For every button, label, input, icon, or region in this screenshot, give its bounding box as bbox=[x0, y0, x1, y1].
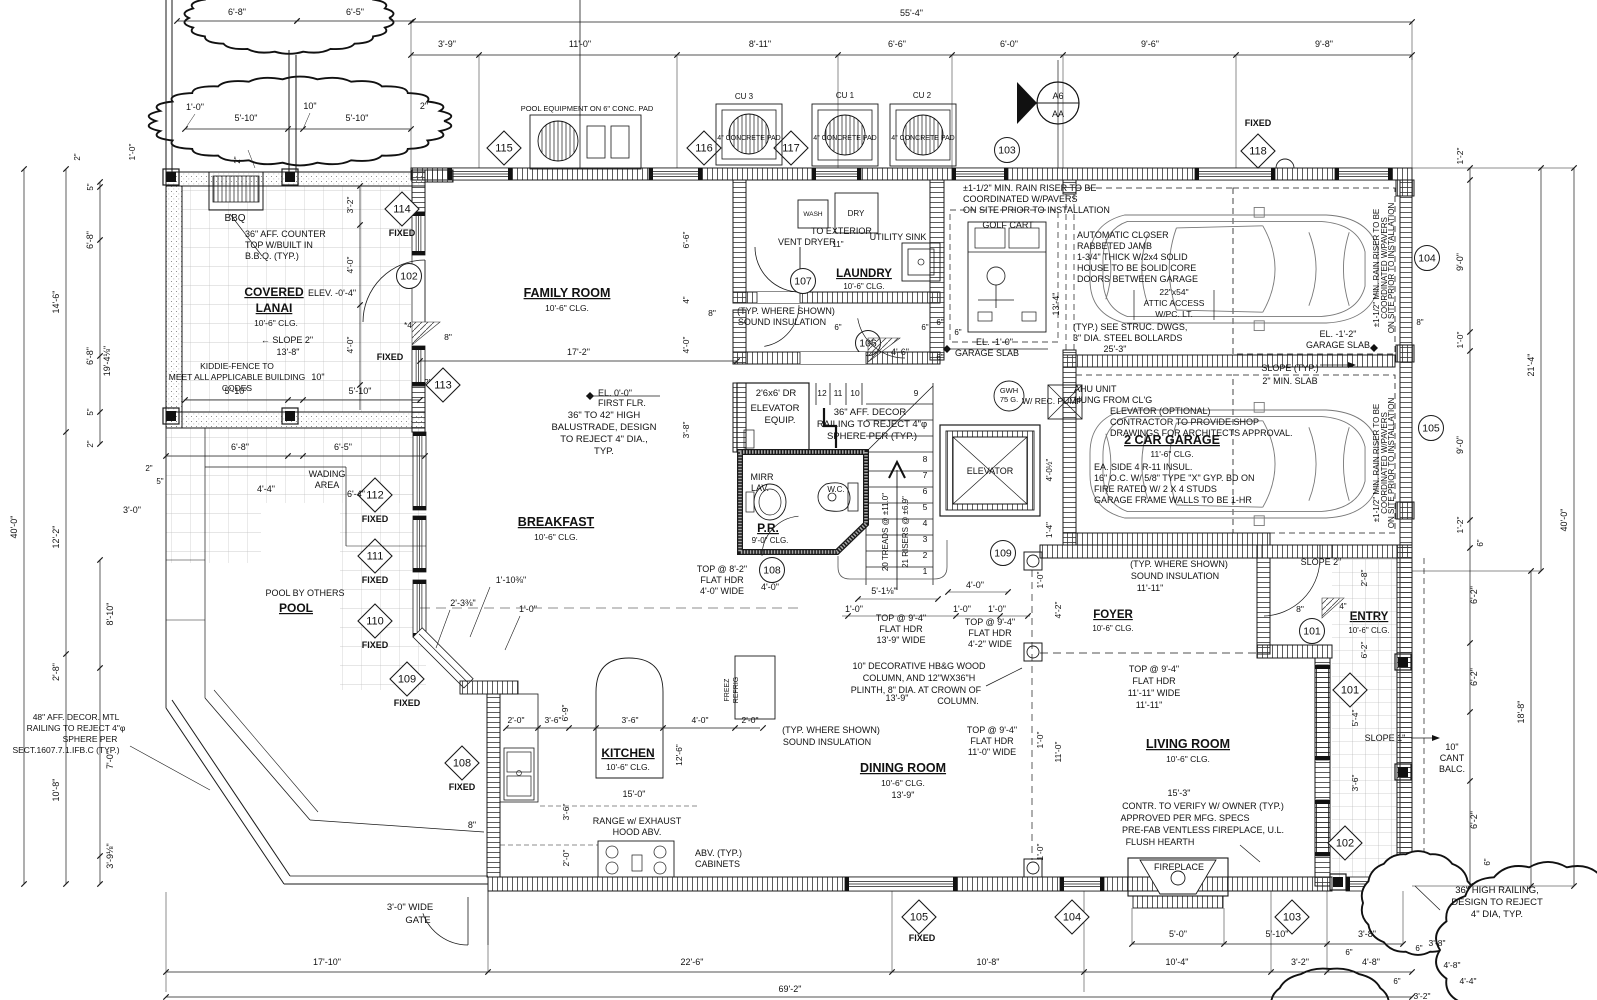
svg-text:SOUND INSULATION: SOUND INSULATION bbox=[738, 317, 826, 327]
svg-text:ABV. (TYP.): ABV. (TYP.) bbox=[695, 848, 742, 858]
left dim 14-6 12-2 bbox=[65, 169, 67, 884]
stairs upper flight short treads bbox=[815, 383, 817, 405]
svg-text:FOYER: FOYER bbox=[1093, 609, 1133, 621]
svg-text:6'-2": 6'-2" bbox=[1469, 668, 1479, 686]
diamond 111 bbox=[358, 539, 392, 573]
svg-text:FIXED: FIXED bbox=[389, 228, 416, 238]
right dim line inner bbox=[1469, 168, 1471, 886]
garage right wall bbox=[1400, 180, 1412, 891]
svg-text:SOUND INSULATION: SOUND INSULATION bbox=[1131, 571, 1219, 581]
svg-text:6'-9": 6'-9" bbox=[560, 705, 570, 722]
entry porch grid bbox=[1332, 558, 1397, 877]
svg-text:3: 3 bbox=[923, 534, 928, 544]
svg-text:10": 10" bbox=[303, 101, 316, 111]
svg-text:CONTR. TO VERIFY W/ OWNER (TYP: CONTR. TO VERIFY W/ OWNER (TYP.) bbox=[1122, 801, 1284, 811]
svg-text:← SLOPE 2": ← SLOPE 2" bbox=[261, 335, 313, 345]
svg-text:6'-5": 6'-5" bbox=[346, 7, 364, 17]
elevator equip room bbox=[737, 383, 809, 452]
svg-text:4'-2" WIDE: 4'-2" WIDE bbox=[968, 639, 1012, 649]
svg-text:PLINTH, 8" DIA. AT CROWN OF: PLINTH, 8" DIA. AT CROWN OF bbox=[851, 685, 982, 695]
svg-text:6: 6 bbox=[923, 486, 928, 496]
lanai post bottom-mid bbox=[282, 408, 298, 424]
svg-text:RANGE w/ EXHAUST: RANGE w/ EXHAUST bbox=[593, 816, 682, 826]
svg-text:109: 109 bbox=[994, 548, 1012, 560]
family room west wall with corner bbox=[412, 170, 425, 212]
circle 108 bbox=[760, 558, 785, 583]
svg-text:5'-10": 5'-10" bbox=[349, 386, 372, 396]
svg-text:FAMILY ROOM: FAMILY ROOM bbox=[524, 286, 611, 300]
svg-text:6": 6" bbox=[1345, 948, 1352, 957]
kitchen west wall bbox=[487, 694, 500, 877]
svg-text:FREEZ: FREEZ bbox=[724, 678, 731, 702]
svg-text:113: 113 bbox=[434, 380, 452, 392]
svg-text:BALC.: BALC. bbox=[1439, 764, 1465, 774]
golf cart dashed bay bbox=[950, 210, 1058, 342]
svg-text:4'-0": 4'-0" bbox=[692, 715, 709, 725]
svg-text:111: 111 bbox=[367, 551, 384, 563]
svg-text:10'-6" CLG.: 10'-6" CLG. bbox=[545, 303, 589, 313]
svg-text:6'-5": 6'-5" bbox=[334, 442, 352, 452]
svg-text:FLAT HDR: FLAT HDR bbox=[879, 624, 923, 634]
svg-text:4'-0": 4'-0" bbox=[345, 337, 355, 354]
svg-text:EL. 0'-0": EL. 0'-0" bbox=[598, 388, 632, 398]
svg-text:10'-6" CLG.: 10'-6" CLG. bbox=[1166, 754, 1210, 764]
gate arc bbox=[423, 913, 468, 945]
west wall window 1 bbox=[412, 212, 425, 255]
svg-text:20 TREADS @ ±11.0": 20 TREADS @ ±11.0" bbox=[881, 493, 890, 571]
right wall post blocks bbox=[1396, 180, 1414, 196]
svg-text:2": 2" bbox=[73, 153, 82, 160]
utility sink bbox=[902, 243, 940, 281]
svg-text:FLUSH HEARTH: FLUSH HEARTH bbox=[1126, 837, 1195, 847]
svg-text:5'-1⅛": 5'-1⅛" bbox=[871, 586, 896, 596]
cabinet dashed lines bbox=[540, 805, 700, 807]
svg-text:8'-11": 8'-11" bbox=[749, 39, 771, 49]
svg-text:1'-4": 1'-4" bbox=[1045, 522, 1054, 538]
west wall bottom segment bbox=[412, 386, 425, 432]
svg-text:4" DIA, TYP.: 4" DIA, TYP. bbox=[1471, 909, 1523, 920]
svg-text:2": 2" bbox=[233, 156, 242, 163]
svg-text:ON SITE PRIOR TO INSTALLATION: ON SITE PRIOR TO INSTALLATION bbox=[1387, 398, 1396, 529]
closet wall vertical bbox=[1257, 558, 1270, 654]
svg-text:4: 4 bbox=[923, 518, 928, 528]
svg-text:TOP W/BUILT IN: TOP W/BUILT IN bbox=[245, 240, 313, 250]
svg-text:FLAT HDR: FLAT HDR bbox=[968, 628, 1012, 638]
laundry left wall bbox=[733, 180, 746, 303]
svg-text:P.R.: P.R. bbox=[757, 521, 779, 535]
svg-text:36" AFF. DECOR: 36" AFF. DECOR bbox=[834, 407, 907, 418]
svg-text:1'-0": 1'-0" bbox=[953, 604, 971, 614]
svg-text:1'-0": 1'-0" bbox=[1035, 844, 1045, 861]
svg-text:40'-0": 40'-0" bbox=[9, 516, 19, 539]
svg-text:1'-0": 1'-0" bbox=[186, 102, 204, 112]
svg-text:3'-8": 3'-8" bbox=[681, 422, 691, 439]
pool bottom deck lines bbox=[284, 883, 488, 885]
svg-text:3'-6": 3'-6" bbox=[622, 715, 639, 725]
diamond 113 bbox=[426, 368, 460, 402]
svg-text:4'-4": 4'-4" bbox=[257, 484, 275, 494]
svg-text:GOLF CART: GOLF CART bbox=[982, 220, 1034, 230]
svg-text:3'-2": 3'-2" bbox=[1414, 991, 1431, 1000]
svg-text:6": 6" bbox=[834, 323, 841, 332]
svg-text:ELEVATOR (OPTIONAL): ELEVATOR (OPTIONAL) bbox=[1110, 406, 1211, 416]
svg-text:105: 105 bbox=[910, 912, 928, 924]
column markers bbox=[1024, 552, 1042, 570]
svg-text:6'-6": 6'-6" bbox=[888, 39, 906, 49]
bottom dim row small (5-0, 5-10, 3-8) bbox=[1132, 943, 1403, 945]
svg-text:B.B.Q. (TYP.): B.B.Q. (TYP.) bbox=[245, 251, 299, 261]
svg-text:ON SITE PRIOR TO INSTALLATION: ON SITE PRIOR TO INSTALLATION bbox=[1387, 203, 1396, 334]
laundry bottom wall bbox=[733, 292, 940, 303]
svg-text:75 G.: 75 G. bbox=[1000, 395, 1018, 404]
cu2 pad bbox=[890, 104, 956, 166]
entry south window bbox=[1346, 877, 1396, 891]
svg-text:1'-0": 1'-0" bbox=[519, 604, 537, 614]
svg-text:105: 105 bbox=[1422, 423, 1440, 435]
svg-text:115: 115 bbox=[495, 143, 513, 155]
svg-text:4": 4" bbox=[1339, 602, 1346, 611]
tree dim row 2 bbox=[185, 128, 411, 130]
svg-text:10'-6" CLG.: 10'-6" CLG. bbox=[843, 282, 884, 291]
svg-text:CABINETS: CABINETS bbox=[695, 859, 740, 869]
svg-text:2'-8": 2'-8" bbox=[1359, 570, 1369, 587]
svg-text:FIXED: FIXED bbox=[394, 698, 421, 708]
svg-text:10'-6" CLG.: 10'-6" CLG. bbox=[254, 318, 298, 328]
svg-text:6'-2": 6'-2" bbox=[1469, 586, 1479, 604]
svg-text:ELEVATOR: ELEVATOR bbox=[750, 403, 799, 414]
tree cloud bottom right 1 bbox=[1362, 851, 1474, 955]
svg-text:RAILING TO REJECT 4"φ: RAILING TO REJECT 4"φ bbox=[27, 723, 126, 733]
svg-text:8": 8" bbox=[708, 308, 716, 318]
garage mid wall bbox=[1063, 355, 1395, 367]
door hatch wedge *4 bbox=[412, 322, 440, 345]
svg-text:RABBETED JAMB: RABBETED JAMB bbox=[1077, 241, 1152, 251]
garage left wall lower bbox=[1063, 350, 1076, 545]
svg-text:1'-0": 1'-0" bbox=[988, 604, 1006, 614]
dims above kitchen bay bbox=[440, 644, 540, 646]
svg-text:FIXED: FIXED bbox=[449, 782, 476, 792]
stair diagonal rail bbox=[866, 386, 933, 452]
svg-text:VENT DRYER: VENT DRYER bbox=[778, 237, 836, 247]
svg-text:2": 2" bbox=[145, 464, 152, 473]
diamond 110 bbox=[358, 604, 392, 638]
svg-text:6'-6": 6'-6" bbox=[681, 232, 691, 249]
bay sill horizontal bbox=[460, 681, 518, 694]
svg-text:FIRE RATED W/ 2 X 4 STUDS: FIRE RATED W/ 2 X 4 STUDS bbox=[1094, 484, 1217, 494]
svg-text:POOL BY OTHERS: POOL BY OTHERS bbox=[265, 588, 344, 598]
entry posts bbox=[1395, 654, 1411, 670]
svg-text:11'-11" WIDE: 11'-11" WIDE bbox=[1128, 688, 1181, 698]
svg-text:114: 114 bbox=[393, 204, 411, 216]
svg-text:8": 8" bbox=[1296, 604, 1304, 614]
door hatch by garage bbox=[868, 338, 900, 362]
svg-text:10'-8": 10'-8" bbox=[977, 957, 1000, 967]
right dim 18-8 bbox=[1530, 571, 1532, 886]
svg-text:LIVING ROOM: LIVING ROOM bbox=[1146, 737, 1230, 751]
svg-text:17'-2": 17'-2" bbox=[567, 347, 590, 357]
top wall window family room west bbox=[448, 168, 512, 180]
svg-text:KITCHEN: KITCHEN bbox=[601, 746, 654, 760]
svg-text:11'-0" WIDE: 11'-0" WIDE bbox=[968, 747, 1016, 757]
svg-text:4'-0": 4'-0" bbox=[681, 337, 691, 354]
svg-text:4" CONCRETE PAD: 4" CONCRETE PAD bbox=[717, 135, 780, 142]
garage left wall upper stub bbox=[1063, 180, 1076, 194]
svg-text:19'-4⅛": 19'-4⅛" bbox=[102, 346, 112, 376]
svg-text:8": 8" bbox=[1416, 318, 1423, 327]
svg-text:MEET ALL APPLICABLE BUILDING: MEET ALL APPLICABLE BUILDING bbox=[169, 372, 306, 382]
svg-text:6'-2": 6'-2" bbox=[1359, 642, 1369, 659]
svg-text:POOL EQUIPMENT ON 6" CONC. PAD: POOL EQUIPMENT ON 6" CONC. PAD bbox=[521, 104, 654, 113]
svg-text:55'-4": 55'-4" bbox=[900, 8, 923, 18]
svg-text:RAILING TO REJECT 4"φ: RAILING TO REJECT 4"φ bbox=[817, 419, 927, 430]
diamond 116 bbox=[687, 131, 721, 165]
gwh circle bbox=[994, 381, 1024, 411]
pool deck grid below lanai bbox=[166, 428, 426, 503]
top dim extension lines bbox=[410, 55, 412, 168]
svg-text:8": 8" bbox=[468, 820, 476, 830]
tree cloud top-left upper bbox=[185, 0, 394, 54]
svg-text:8": 8" bbox=[444, 332, 452, 342]
diamond 118 bbox=[1241, 134, 1275, 168]
svg-text:4'-4": 4'-4" bbox=[1460, 976, 1477, 986]
svg-text:103: 103 bbox=[1283, 912, 1301, 924]
svg-text:COVERED: COVERED bbox=[244, 285, 304, 299]
svg-text:8: 8 bbox=[923, 454, 928, 464]
svg-text:2": 2" bbox=[86, 440, 95, 447]
svg-text:3'-6": 3'-6" bbox=[545, 715, 562, 725]
svg-text:40'-0": 40'-0" bbox=[1559, 509, 1569, 532]
svg-text:3'-0": 3'-0" bbox=[123, 505, 141, 515]
svg-text:2'-0": 2'-0" bbox=[561, 850, 571, 867]
svg-text:AHU UNIT: AHU UNIT bbox=[1074, 384, 1117, 394]
svg-text:ON SITE PRIOR TO INSTALLATION: ON SITE PRIOR TO INSTALLATION bbox=[963, 205, 1110, 215]
svg-text:108: 108 bbox=[763, 565, 781, 577]
svg-text:1'-10⅜": 1'-10⅜" bbox=[496, 575, 526, 585]
svg-text:6": 6" bbox=[936, 353, 943, 362]
svg-text:13'-9": 13'-9" bbox=[886, 693, 909, 703]
circle 109 bbox=[991, 541, 1016, 566]
svg-text:AREA: AREA bbox=[315, 480, 340, 490]
range bbox=[598, 841, 674, 877]
svg-text:SPHERE PER (TYP.): SPHERE PER (TYP.) bbox=[827, 431, 917, 442]
svg-text:ELEVATOR: ELEVATOR bbox=[967, 466, 1014, 476]
svg-text:5: 5 bbox=[923, 502, 928, 512]
svg-text:17'-10": 17'-10" bbox=[313, 957, 341, 967]
svg-text:LAUNDRY: LAUNDRY bbox=[836, 268, 892, 280]
svg-text:GATE: GATE bbox=[405, 915, 430, 926]
svg-text:FIXED: FIXED bbox=[362, 640, 389, 650]
svg-text:22'-6": 22'-6" bbox=[681, 957, 704, 967]
svg-text:2'-3⅜": 2'-3⅜" bbox=[450, 598, 475, 608]
svg-text:TO EXTERIOR: TO EXTERIOR bbox=[811, 226, 872, 236]
kitchen island arch bbox=[596, 658, 663, 778]
svg-text:5": 5" bbox=[86, 183, 95, 190]
bottom dim row 1 bbox=[166, 971, 1412, 973]
svg-text:13'-9": 13'-9" bbox=[892, 790, 915, 800]
top wall window laundry bbox=[812, 168, 861, 180]
svg-text:3'-2": 3'-2" bbox=[1291, 957, 1309, 967]
svg-text:(TYP. WHERE SHOWN): (TYP. WHERE SHOWN) bbox=[782, 725, 880, 735]
svg-text:EL. -1'-0": EL. -1'-0" bbox=[976, 337, 1013, 347]
svg-text:EL. -1'-2": EL. -1'-2" bbox=[1320, 329, 1357, 339]
svg-text:4'-2": 4'-2" bbox=[1053, 602, 1063, 619]
foyer top wall bbox=[1040, 545, 1257, 558]
svg-text:5": 5" bbox=[86, 408, 95, 415]
svg-text:1'-0": 1'-0" bbox=[1455, 332, 1465, 349]
svg-text:10": 10" bbox=[311, 372, 324, 382]
svg-text:4'-0" WIDE: 4'-0" WIDE bbox=[700, 586, 744, 596]
right dim 40-0 bbox=[1573, 168, 1575, 886]
svg-text:2" MIN. SLAB: 2" MIN. SLAB bbox=[1262, 376, 1317, 386]
svg-text:12: 12 bbox=[817, 388, 827, 398]
svg-text:11": 11" bbox=[832, 240, 843, 249]
tree dim row top-left bbox=[177, 20, 297, 22]
diamond 117 bbox=[774, 131, 808, 165]
diamond 115 bbox=[487, 131, 521, 165]
diamond 101 bbox=[1333, 673, 1367, 707]
svg-text:SOUND INSULATION: SOUND INSULATION bbox=[783, 737, 871, 747]
pool equipment pad bbox=[530, 115, 641, 169]
svg-text:3'-9⅛": 3'-9⅛" bbox=[105, 843, 115, 868]
svg-text:10'-8": 10'-8" bbox=[51, 779, 61, 802]
svg-text:36" HIGH RAILING,: 36" HIGH RAILING, bbox=[1455, 885, 1539, 896]
svg-text:10'-6" CLG.: 10'-6" CLG. bbox=[606, 762, 650, 772]
hall west wall lower bbox=[733, 310, 746, 364]
svg-text:16" O.C. W/ 5/8" TYPE "X" GYP.: 16" O.C. W/ 5/8" TYPE "X" GYP. BD ON bbox=[1094, 473, 1255, 483]
svg-text:5'-4": 5'-4" bbox=[1350, 710, 1360, 727]
svg-text:*4: *4 bbox=[404, 320, 412, 330]
svg-text:5'-10": 5'-10" bbox=[346, 113, 369, 123]
svg-text:3'-8": 3'-8" bbox=[1429, 938, 1446, 948]
stair handrail zigzag bbox=[824, 408, 836, 448]
svg-text:FIXED: FIXED bbox=[909, 933, 936, 943]
left dim lower inner bbox=[99, 560, 101, 884]
svg-text:1'-0": 1'-0" bbox=[1035, 732, 1045, 749]
svg-text:FIXED: FIXED bbox=[362, 575, 389, 585]
svg-text:TYP.: TYP. bbox=[594, 446, 614, 457]
svg-text:2: 2 bbox=[923, 550, 928, 560]
svg-text:1: 1 bbox=[923, 566, 928, 576]
svg-text:FIXED: FIXED bbox=[362, 514, 389, 524]
svg-text:6'-8": 6'-8" bbox=[85, 347, 95, 365]
svg-text:MIRR: MIRR bbox=[751, 472, 774, 482]
svg-text:11: 11 bbox=[834, 388, 843, 398]
svg-text:CU 1: CU 1 bbox=[836, 91, 855, 100]
lanai bottom dims bbox=[166, 455, 425, 457]
svg-text:4'-0": 4'-0" bbox=[966, 580, 984, 590]
svg-text:FIXED: FIXED bbox=[1245, 118, 1272, 128]
svg-text:2'-0": 2'-0" bbox=[742, 715, 759, 725]
roof vent semicircle bbox=[1276, 159, 1294, 168]
A6 AA section marker bbox=[1037, 82, 1079, 124]
svg-text:6": 6" bbox=[1476, 539, 1485, 546]
svg-text:8'-10": 8'-10" bbox=[105, 603, 115, 626]
lanai top wall bbox=[166, 172, 425, 186]
svg-text:GARAGE FRAME WALLS TO BE 1-HR: GARAGE FRAME WALLS TO BE 1-HR bbox=[1094, 495, 1252, 505]
svg-text:5'-10": 5'-10" bbox=[225, 386, 248, 396]
fireplace bbox=[1128, 858, 1228, 896]
svg-text:10: 10 bbox=[850, 388, 860, 398]
svg-text:KIDDIE-FENCE TO: KIDDIE-FENCE TO bbox=[200, 361, 274, 371]
svg-text:11'-0": 11'-0" bbox=[569, 39, 591, 49]
hall bottom wall bbox=[733, 352, 940, 364]
svg-text:GWH: GWH bbox=[1000, 386, 1018, 395]
svg-text:21'-4": 21'-4" bbox=[1526, 354, 1536, 377]
diamond 108 bbox=[445, 746, 479, 780]
svg-text:4" CONCRETE PAD: 4" CONCRETE PAD bbox=[891, 135, 954, 142]
stairs up arrow bbox=[896, 470, 898, 590]
left dim inner bbox=[99, 182, 101, 444]
circle 104 bbox=[1415, 246, 1440, 271]
tree cloud top-left lower bbox=[149, 77, 452, 166]
el -1-0 garage slab bbox=[943, 345, 951, 353]
svg-text:1'-2": 1'-2" bbox=[1455, 517, 1465, 534]
entry inner wall bbox=[1257, 645, 1332, 658]
svg-text:FIREPLACE: FIREPLACE bbox=[1154, 862, 1204, 872]
svg-text:3'-0" WIDE: 3'-0" WIDE bbox=[387, 902, 433, 913]
svg-text:GARAGE SLAB: GARAGE SLAB bbox=[955, 348, 1019, 358]
svg-text:(TYP. WHERE SHOWN): (TYP. WHERE SHOWN) bbox=[737, 306, 835, 316]
svg-text:SPHERE PER: SPHERE PER bbox=[63, 734, 118, 744]
lanai left wall bbox=[166, 186, 182, 428]
svg-text:TOP @ 9'-4": TOP @ 9'-4" bbox=[965, 617, 1015, 627]
covered lanai tile grid bbox=[182, 186, 411, 412]
svg-text:FIXED: FIXED bbox=[377, 352, 404, 362]
svg-text:10": 10" bbox=[1445, 742, 1458, 752]
svg-text:4'-0": 4'-0" bbox=[761, 582, 779, 592]
svg-text:HUNG FROM CL'G: HUNG FROM CL'G bbox=[1074, 395, 1152, 405]
svg-text:118: 118 bbox=[1249, 146, 1267, 158]
svg-text:6'-4": 6'-4" bbox=[347, 489, 365, 499]
equip west wall bbox=[733, 383, 746, 452]
car top bay bbox=[1090, 207, 1378, 330]
hallway door arcs 106 bbox=[764, 305, 799, 346]
svg-text:CONTRACTOR TO PROVIDE SHOP: CONTRACTOR TO PROVIDE SHOP bbox=[1110, 417, 1259, 427]
svg-text:WASH: WASH bbox=[803, 211, 823, 218]
svg-text:EQUIP.: EQUIP. bbox=[765, 415, 796, 426]
svg-text:BREAKFAST: BREAKFAST bbox=[518, 515, 595, 529]
svg-text:TOP @ 9'-4": TOP @ 9'-4" bbox=[967, 725, 1017, 735]
lanai inner dim 5-10 bbox=[185, 399, 420, 401]
svg-text:W.C.: W.C. bbox=[827, 485, 844, 494]
svg-text:TOP @ 8'-2": TOP @ 8'-2" bbox=[697, 564, 747, 574]
svg-text:SLOPE (TYP.): SLOPE (TYP.) bbox=[1261, 363, 1318, 373]
diamond 114 bbox=[385, 192, 419, 226]
svg-text:LAV.: LAV. bbox=[751, 483, 769, 493]
entry top wall bbox=[1257, 545, 1332, 558]
svg-text:103: 103 bbox=[998, 145, 1016, 157]
tree cloud bottom right 3 bbox=[1271, 969, 1388, 1000]
svg-text:10'-4": 10'-4" bbox=[1166, 957, 1189, 967]
svg-text:ATTIC ACCESS: ATTIC ACCESS bbox=[1144, 298, 1205, 308]
svg-text:6'-2": 6'-2" bbox=[1469, 811, 1479, 829]
svg-text:6": 6" bbox=[1393, 977, 1400, 986]
svg-text:PRE-FAB VENTLESS FIREPLACE, U.: PRE-FAB VENTLESS FIREPLACE, U.L. bbox=[1122, 825, 1284, 835]
svg-text:2'-0": 2'-0" bbox=[508, 715, 525, 725]
svg-text:13'-4": 13'-4" bbox=[1051, 293, 1061, 316]
svg-text:6'-8": 6'-8" bbox=[85, 231, 95, 249]
svg-text:4'-8": 4'-8" bbox=[1444, 960, 1461, 970]
garage door dashed opening top bay bbox=[1233, 188, 1395, 354]
diamond 109 bay bbox=[390, 662, 424, 696]
laundry right wall bbox=[930, 180, 944, 360]
svg-text:3'-6": 3'-6" bbox=[1350, 775, 1360, 792]
svg-text:7'-0": 7'-0" bbox=[105, 751, 115, 769]
svg-text:108: 108 bbox=[453, 758, 471, 770]
svg-text:4": 4" bbox=[682, 296, 691, 303]
vertical line thru A6 bbox=[1057, 60, 1059, 168]
svg-text:117: 117 bbox=[782, 143, 800, 155]
